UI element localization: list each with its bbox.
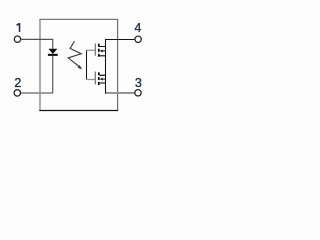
svg-text:4: 4 [134, 21, 141, 35]
svg-text:2: 2 [14, 76, 21, 90]
svg-text:3: 3 [135, 76, 142, 90]
